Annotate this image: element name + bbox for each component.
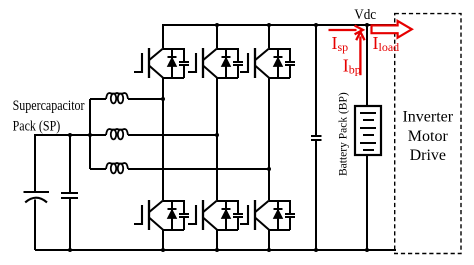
- svg-text:Inverter: Inverter: [402, 108, 453, 125]
- svg-text:Drive: Drive: [410, 147, 446, 164]
- svg-text:Motor: Motor: [408, 128, 449, 145]
- svg-text:Vdc: Vdc: [354, 6, 376, 23]
- svg-text:Pack (SP): Pack (SP): [13, 117, 61, 135]
- svg-text:Battery Pack (BP): Battery Pack (BP): [337, 92, 349, 176]
- svg-text:Supercapacitor: Supercapacitor: [13, 97, 85, 114]
